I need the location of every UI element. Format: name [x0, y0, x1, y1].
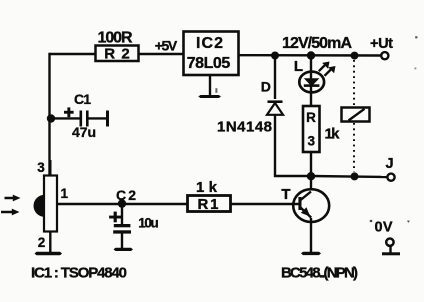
wire dotted relay link lower — [353, 123, 355, 172]
wire emitter to ground — [310, 218, 312, 252]
ground under transistor emitter — [301, 252, 321, 255]
relay coil K1 — [342, 108, 370, 122]
wire diode branch vertical upper — [274, 56, 276, 100]
node +Ut terminal — [381, 52, 388, 59]
ground under IC2 — [198, 95, 221, 98]
IR input arrow lower — [1, 209, 20, 216]
wire IC2 ground stem — [209, 76, 211, 96]
node junction dot collector R3 — [307, 172, 315, 180]
node junction dot collector relay — [351, 172, 359, 180]
ground under C2 — [114, 248, 134, 251]
resistor R2 — [96, 45, 139, 62]
capacitor C2 — [109, 212, 131, 234]
svg-text:C1: C1 — [74, 91, 91, 107]
wire 0V terminal stem — [389, 247, 391, 253]
wire IC1 pin2 — [49, 232, 51, 253]
noise speck left of 0V — [370, 220, 372, 222]
wire LED branch through LED to R3 — [310, 56, 312, 107]
wire R1 to transistor base — [231, 203, 299, 205]
svg-text:47u: 47u — [72, 124, 96, 140]
wire IC2 output to +Ut — [239, 54, 381, 57]
node junction dot top relay — [351, 52, 359, 60]
ground under IC1 pin2 — [35, 252, 63, 256]
LED L — [299, 62, 335, 93]
svg-text:C2: C2 — [116, 187, 136, 203]
svg-text:100R: 100R — [98, 29, 133, 46]
svg-text:3: 3 — [308, 134, 316, 149]
svg-text:+Ut: +Ut — [370, 36, 393, 52]
node junction dot top D — [271, 52, 279, 60]
noise dash left of IC2 ground — [215, 88, 217, 93]
svg-text:10u: 10u — [138, 216, 159, 231]
IR input arrow upper — [5, 195, 21, 202]
svg-text:+5V: +5V — [155, 38, 178, 54]
wire C2 stem upper — [121, 204, 123, 225]
wire R3 to collector node — [310, 152, 312, 190]
capacitor C1 — [64, 107, 109, 126]
node junction dot left rail C1 — [47, 114, 55, 122]
node 0V terminal — [386, 239, 393, 246]
node junction dot C2 — [118, 199, 126, 207]
svg-text:BC548..(NPN): BC548..(NPN) — [281, 264, 358, 281]
op-amp U1: IC2 regulator box 78L05 — [184, 32, 239, 76]
svg-text:2: 2 — [38, 235, 46, 250]
wire C1 lead left — [51, 117, 80, 119]
ground bar 0V terminal — [382, 252, 400, 255]
diode D 1N4148 — [267, 102, 283, 115]
noise speck right of 0V — [407, 221, 410, 223]
noise speck right mid — [415, 68, 417, 70]
node junction dot top LED — [307, 51, 315, 59]
svg-text:IC1 : TSOP4840: IC1 : TSOP4840 — [31, 264, 127, 281]
svg-text:1: 1 — [61, 186, 69, 201]
svg-text:T: T — [281, 186, 290, 203]
resistor R3 — [303, 106, 320, 152]
svg-text:12V/50mA: 12V/50mA — [282, 35, 352, 52]
svg-text:L: L — [294, 58, 303, 75]
svg-text:1k: 1k — [325, 125, 341, 142]
svg-text:R: R — [306, 110, 316, 125]
wire dotted relay link upper — [353, 60, 355, 106]
transducer IC1 TSOP4840 body — [34, 176, 58, 232]
svg-text:D: D — [261, 79, 271, 95]
node J terminal — [387, 174, 394, 181]
svg-text:J: J — [385, 156, 393, 172]
svg-text:R 2: R 2 — [104, 45, 130, 62]
wire R2 to IC2 — [139, 53, 183, 55]
svg-text:1 k: 1 k — [196, 179, 218, 196]
svg-text:3: 3 — [37, 160, 45, 175]
svg-text:IC2: IC2 — [196, 35, 223, 52]
svg-text:1N4148: 1N4148 — [217, 119, 272, 136]
wire left vertical rail — [48, 53, 50, 176]
resistor R1 — [188, 196, 231, 214]
wire C1 lead right — [89, 117, 107, 119]
svg-text:0V: 0V — [375, 220, 393, 236]
wire diode branch vertical lower and corner to collector node — [275, 114, 311, 176]
noise speck right edge top — [415, 36, 417, 38]
transistor Q1 BC548 — [293, 189, 329, 222]
wire C2 stem lower — [121, 233, 123, 249]
wire top-left horizontal to R2 — [50, 53, 96, 55]
svg-text:78L05: 78L05 — [187, 55, 231, 72]
wire collector node to J terminal — [311, 176, 387, 177]
wire IC1 pin3 — [49, 160, 51, 176]
wire IC1 pin1 to R1 — [57, 203, 187, 205]
svg-text:R 1: R 1 — [198, 196, 219, 213]
